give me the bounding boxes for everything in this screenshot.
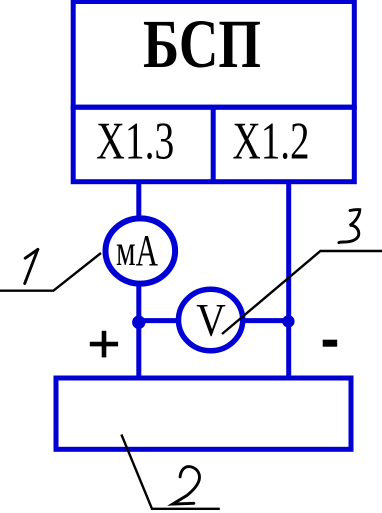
label 3 — [339, 210, 360, 243]
svg-text:V: V — [196, 295, 226, 347]
junction dot right — [282, 315, 294, 327]
label 1 — [25, 249, 38, 283]
svg-text:X1.3: X1.3 — [96, 113, 174, 171]
divider between X1.3 and X1.2 — [211, 107, 216, 182]
block BSP box — [73, 2, 354, 108]
load box — [56, 378, 351, 449]
milliammeter circle — [106, 218, 176, 283]
svg-text:X1.2: X1.2 — [233, 113, 310, 171]
horizontal wire junction to junction — [139, 318, 289, 323]
leader line 1 — [0, 253, 101, 291]
wire X1.2 to load box — [286, 182, 291, 378]
label 2 — [173, 467, 200, 505]
wire X1.3 to milliammeter — [136, 182, 141, 220]
svg-text:БСП: БСП — [143, 6, 261, 82]
voltmeter circle — [179, 289, 243, 350]
leader line 2 — [121, 435, 219, 509]
plus sign — [90, 331, 118, 358]
wire left junction to load box — [136, 322, 141, 378]
leader line 3 — [222, 251, 382, 334]
minus sign — [323, 340, 338, 347]
junction dot left — [132, 316, 145, 329]
connector row X1.3 / X1.2 box — [73, 107, 354, 182]
svg-text:мА: мА — [116, 226, 158, 275]
wire milliammeter to left junction — [136, 283, 141, 322]
